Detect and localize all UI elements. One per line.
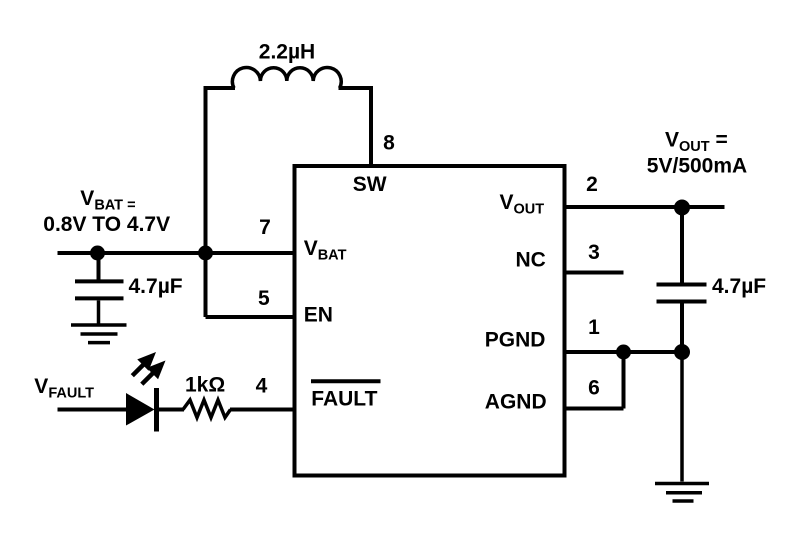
svg-text:2: 2 [586,173,598,196]
capacitor C2 4.7uF output plates [657,285,707,302]
LED D1 cathode bar [154,388,159,432]
wire pin 8 SW leg [369,86,373,166]
svg-text:SW: SW [353,173,387,196]
wire output ground lead [680,352,684,482]
wire pin 7 VBAT input row [58,251,295,255]
capacitor C1 4.7uF input plates [75,281,124,298]
wire input cap top lead [97,253,101,280]
wire pin 4 FAULT row left of LED [58,408,129,412]
svg-text:1kΩ: 1kΩ [185,374,225,397]
wire pin 5 EN row [206,315,295,319]
wire inductor left leg down to EN row [204,86,208,317]
IC U1 body [295,166,565,476]
LED D1 arrow 2 [136,355,171,390]
wire pin 1 PGND row [565,350,683,354]
junction node VOUT/C2 [674,200,690,216]
svg-text:4.7µF: 4.7µF [712,275,766,298]
pin FAULT name overline [311,379,381,383]
wire resistor to pin 4 [230,408,295,412]
junction node PGND/C2/GND [674,344,690,360]
svg-text:8: 8 [383,132,395,155]
wire pin6 up to pin1 [622,352,626,409]
junction node PGND/AGND [616,345,631,360]
wire pin 6 AGND row [565,407,624,411]
wire output cap top lead [680,207,684,283]
wire pin 2 VOUT row [565,205,725,209]
wire inductor baseline right [339,86,372,90]
svg-text:EN: EN [304,304,333,327]
svg-text:AGND: AGND [485,391,547,414]
svg-text:PGND: PGND [485,328,546,351]
svg-text:3: 3 [588,241,600,264]
wire output cap bottom lead [680,301,684,353]
svg-text:4.7µF: 4.7µF [129,275,183,298]
resistor R1 zigzag [183,400,231,418]
svg-text:5V/500mA: 5V/500mA [647,155,747,178]
junction node VBAT/L1/EN [198,246,213,261]
wire between LED and resistor [156,408,185,412]
ground input [71,325,127,343]
LED D1 arrow 1 [127,346,162,381]
svg-text:2.2µH: 2.2µH [259,41,315,64]
wire inductor baseline left [206,86,236,90]
svg-text:6: 6 [588,377,600,400]
junction node VBAT/C1 [90,246,105,261]
svg-text:5: 5 [258,287,270,310]
svg-text:1: 1 [588,316,600,339]
inductor L1 coil [232,68,341,88]
svg-text:7: 7 [259,216,271,239]
svg-text:FAULT: FAULT [311,387,377,410]
svg-text:0.8V TO 4.7V: 0.8V TO 4.7V [43,213,170,236]
LED D1 triangle [126,393,155,426]
svg-text:NC: NC [516,248,546,271]
wire input cap bottom lead [97,301,101,325]
wire pin 3 NC stub [565,271,624,275]
ground output [655,484,709,502]
svg-text:4: 4 [256,375,268,398]
